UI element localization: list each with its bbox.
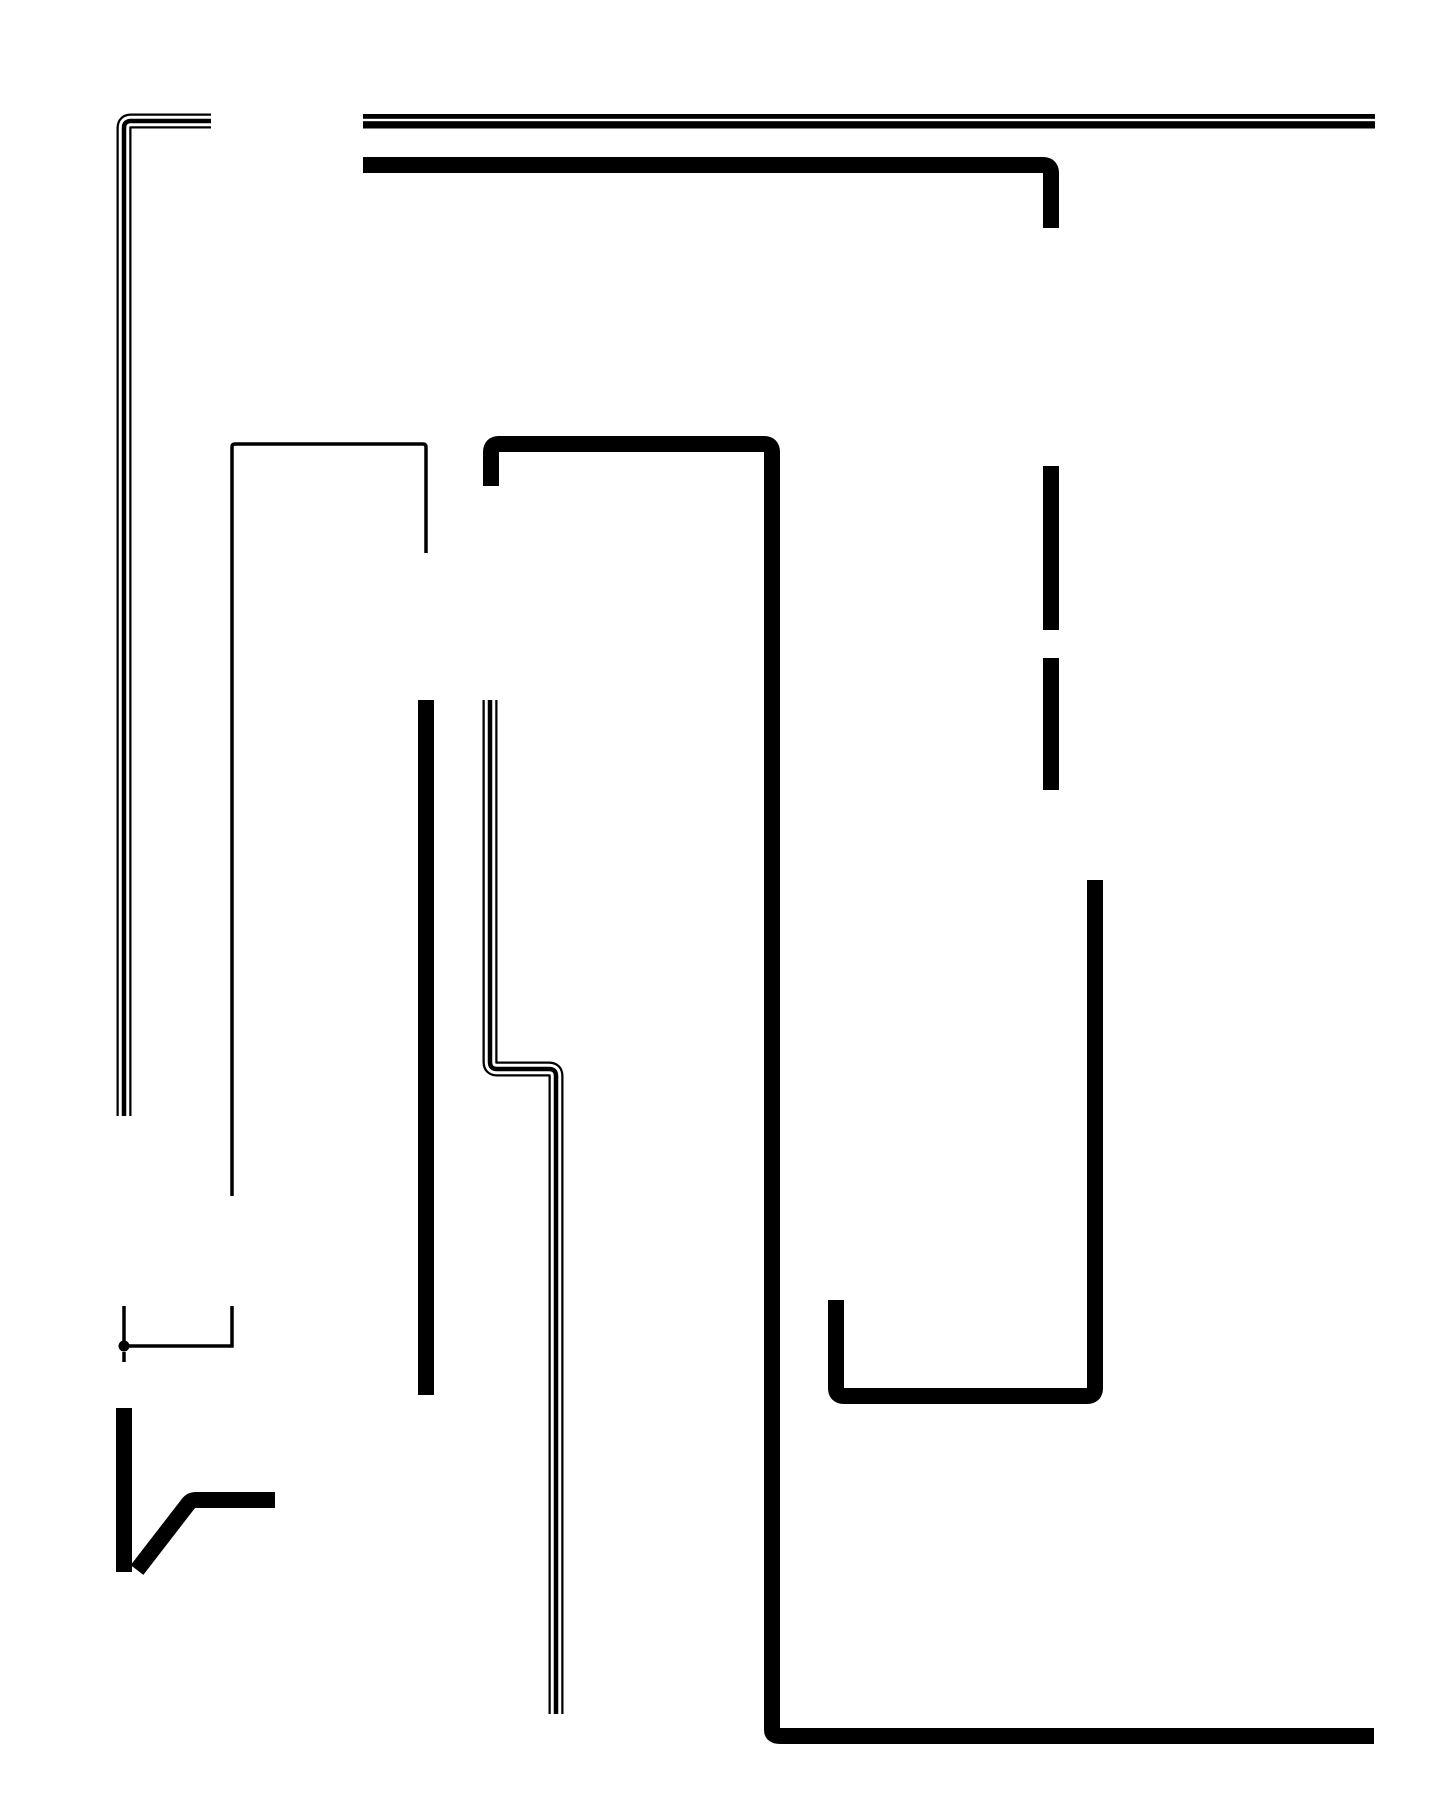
wire from fuse 15A AM2 pin 1 to junction node, and node to 40A MAIN pin 1 [124, 1306, 232, 1346]
wire B-L from connector oval down to battery [116, 1408, 132, 1572]
wire B-W from ignition IG2 pin 6 to right edge [363, 114, 1375, 129]
wire W-B from starter relay pin 2 down through J5 to ground EE [490, 700, 556, 1714]
wire B-L from connector 1F pin 1 down to EA3 pin 5 [1043, 466, 1059, 630]
wire B-L from EA3 pin 5 to park/neutral switch pin 9 [1043, 658, 1059, 790]
wire B from starter relay pin 1 up and right and down to IA2 / junction / bottom-right continuation [491, 444, 1374, 1736]
wire B loop: junction connector J3 pin C down, right, up to EA3 pin 4 and P/N pin 6 [836, 880, 1095, 1396]
wire B from ignition ST2 pin 8 to connector 1F pin 10 [363, 165, 1051, 228]
wire B-L from battery to starter connector B [137, 1500, 275, 1570]
junction node dot below fuse 15A [119, 1341, 130, 1352]
wire B from starter relay pin 3 through II4 and EA2 down to starter pin A [418, 700, 434, 1395]
wire from node down to connector oval [122, 1352, 126, 1362]
wire from fuse 40A MAIN pin 2 up and right to starter relay pin 5 [232, 444, 426, 1196]
wire W-R from ignition AM2 pin 7 down through IA1 to fuse 15A AM2 [124, 121, 211, 1116]
